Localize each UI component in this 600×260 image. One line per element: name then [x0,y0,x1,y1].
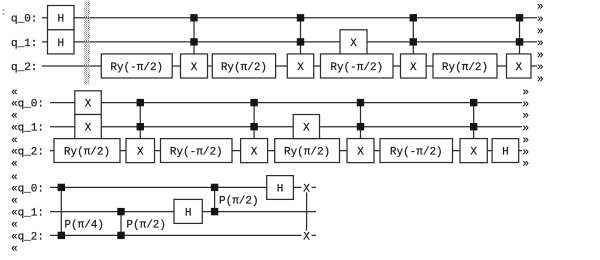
wire q_0 (fold 2) [50,102,522,104]
svg-text:»: » [537,50,544,62]
svg-text:«q_0:: «q_0: [11,183,44,195]
CCX 3 (fold 1): controls q_0,q_1 -> X on q_2 [401,14,427,78]
wire q_1 (fold 3) [50,211,316,213]
swap connector line [306,192,308,230]
svg-text:«: « [11,172,18,184]
svg-text:X: X [191,62,198,74]
control dot at row 1 [470,99,477,106]
svg-text:«q_1:: «q_1: [11,208,44,220]
controlled-phase P(π/4) between q_0 and q_2 [58,184,104,239]
svg-text:»: » [537,2,544,14]
gate H on q_0 (fold 3) [267,176,294,200]
svg-text:«q_2:: «q_2: [11,147,44,159]
svg-text:»: » [537,62,544,74]
svg-text:H: H [185,208,192,220]
stray artifact dots at image top-left [3,9,5,14]
svg-text:H: H [57,14,64,26]
svg-text:«: « [11,87,18,99]
control dot at row 1 [137,99,144,106]
svg-text:P(π/4): P(π/4) [64,219,104,231]
target X box [126,139,155,163]
svg-text:X: X [470,147,477,159]
gate Ry(-π/2) on q_2 (fold 2, 1st) [161,139,233,163]
control dot at row 3 [250,123,257,130]
svg-text:X: X [85,99,92,111]
fold markers « (fold 2 left edge, blank rows) [11,87,18,171]
svg-text:»: » [537,26,544,38]
control line [60,187,62,235]
svg-text:Ry(-π/2): Ry(-π/2) [330,62,383,74]
svg-text:X: X [410,62,417,74]
control dot at row 3 [190,38,197,45]
control line [214,187,216,211]
control line [120,212,122,236]
svg-text:Ry(π/2): Ry(π/2) [442,62,488,74]
svg-text:X: X [297,62,304,74]
svg-text:»: » [537,38,544,50]
fold continuation markers » (fold 1 right edge) [537,2,544,87]
svg-text:X: X [515,62,522,74]
control line [519,18,521,54]
gate X on q_1 (fold 1) [340,30,367,54]
wire q_0 (fold 1) [42,17,537,19]
target X box [401,54,427,78]
gate X on q_1 (fold 2, 1st) [75,115,102,139]
control dot at row 3 [470,123,477,130]
svg-text:X: X [357,147,364,159]
CCX 1 (fold 1): controls q_0,q_1 -> X on q_2 [181,14,208,78]
target X box [347,139,374,163]
svg-text:X: X [303,123,310,135]
gate Ry(-π/2) on q_2 (fold 1, 1st) [101,54,172,78]
svg-text:X: X [350,38,357,50]
control dot on q_1 [211,208,218,215]
control dot on q_1 [117,208,124,215]
svg-text:Ry(-π/2): Ry(-π/2) [390,146,443,158]
fold continuation markers » (fold 2 right edge) [523,87,530,171]
target X box [507,54,532,78]
gate H on q_1 (fold 1) [48,30,75,54]
gate X on q_1 (fold 2, 2nd) [293,115,319,139]
svg-text:X: X [85,123,92,135]
control dot on q_0 [211,184,218,191]
svg-text:«: « [11,111,18,123]
fold markers « (fold 3 left edge, blank rows) [11,172,18,256]
control dot at row 1 [190,14,197,21]
control dot on q_2 [117,232,124,239]
CCX 4 (fold 1): controls q_0,q_1 -> X on q_2 [507,14,532,78]
svg-text:»: » [537,74,544,86]
control dot at row 3 [516,38,523,45]
svg-text:P(π/2): P(π/2) [219,195,259,207]
CCX 2 (fold 1): controls q_0,q_1 -> X on q_2 [287,14,313,78]
controlled-phase P(π/2) between q_1 and q_2 [117,208,166,239]
svg-text:X: X [303,184,310,196]
control dot at row 1 [357,99,364,106]
gate Ry(-π/2) on q_2 (fold 2, 2nd) [380,139,453,163]
CCX 6 (fold 2): controls q_0,q_1 -> X on q_2 [241,99,268,163]
svg-text:P(π/2): P(π/2) [126,219,166,231]
svg-text:»: » [523,87,530,99]
gate Ry(π/2) on q_2 (fold 2, 1st) [54,139,120,163]
svg-text:»: » [523,111,530,123]
svg-text:»: » [523,123,530,135]
gate Ry(π/2) on q_2 (fold 1, 1st) [212,54,275,78]
svg-text:H: H [277,183,284,195]
control dot at row 1 [516,14,523,21]
control line [360,103,362,139]
svg-text:Ry(π/2): Ry(π/2) [284,146,330,158]
svg-text:q_2:: q_2: [11,62,37,74]
barrier (hatched column) [84,1,89,85]
wire q_0 (fold 3) [50,186,316,188]
svg-text:«: « [11,135,18,147]
svg-text:»: » [523,147,530,159]
swap X on q_0 [302,183,312,193]
wire q_2 (fold 1) [42,65,537,67]
svg-text:Ry(-π/2): Ry(-π/2) [170,146,223,158]
wire q_1 (fold 1) [42,41,537,43]
swap X on q_2 [302,231,312,241]
svg-text:Ry(π/2): Ry(π/2) [64,146,110,158]
gate H on q_2 (fold 2) [492,139,519,163]
svg-text:H: H [502,147,509,159]
target X box [460,139,487,163]
svg-text:q_1:: q_1: [11,38,37,50]
controlled-phase P(π/2) between q_0 and q_1 [211,184,259,216]
target X box [181,54,208,78]
control line [253,103,255,139]
CCX 5 (fold 2): controls q_0,q_1 -> X on q_2 [126,99,155,163]
control dot at row 3 [410,38,417,45]
control dot on q_2 [58,232,65,239]
control dot at row 1 [250,99,257,106]
svg-text:«q_2:: «q_2: [11,231,44,243]
control dot on q_0 [58,184,65,191]
control dot at row 1 [297,14,304,21]
svg-text:«: « [11,244,18,255]
svg-text:X: X [137,147,144,159]
CCX 8 (fold 2): controls q_0,q_1 -> X on q_2 [460,99,487,163]
svg-text:«: « [11,159,18,171]
control dot at row 3 [357,123,364,130]
target X box [241,139,268,163]
gate H on q_0 (fold 1) [48,6,75,30]
svg-text:«: « [11,220,18,232]
svg-text:Ry(-π/2): Ry(-π/2) [110,62,163,74]
wire q_2 (fold 2) [50,150,522,152]
control dot at row 3 [297,38,304,45]
gate Ry(π/2) on q_2 (fold 2, 2nd) [275,139,340,163]
control line [412,18,414,54]
gate H on q_1 (fold 3) [174,199,202,223]
target X box [287,54,313,78]
svg-text:«: « [11,196,18,208]
CCX 7 (fold 2): controls q_0,q_1 -> X on q_2 [347,99,374,163]
svg-text:q_0:: q_0: [11,14,37,26]
control line [300,18,302,54]
gate Ry(-π/2) on q_2 (fold 1, 2nd) [321,54,394,78]
svg-text:X: X [251,147,258,159]
control dot at row 1 [410,14,417,21]
gate X on q_0 (fold 2) [75,91,102,115]
svg-text:»: » [523,135,530,147]
wire q_1 (fold 2) [50,126,522,128]
svg-text:«q_0:: «q_0: [11,99,44,111]
wire q_2 (fold 3) [50,234,316,236]
svg-text:X: X [303,232,310,244]
swap gate between q_0 and q_2 [302,183,312,244]
gate Ry(π/2) on q_2 (fold 1, 2nd) [433,54,497,78]
svg-text:«q_1:: «q_1: [11,123,44,135]
svg-text:»: » [523,99,530,111]
svg-text:»: » [537,14,544,26]
control line [473,103,475,139]
svg-text:»: » [523,159,530,171]
control line [193,18,195,54]
control line [139,103,141,139]
control dot at row 3 [137,123,144,130]
svg-text:H: H [57,38,64,50]
svg-text:Ry(π/2): Ry(π/2) [221,62,267,74]
